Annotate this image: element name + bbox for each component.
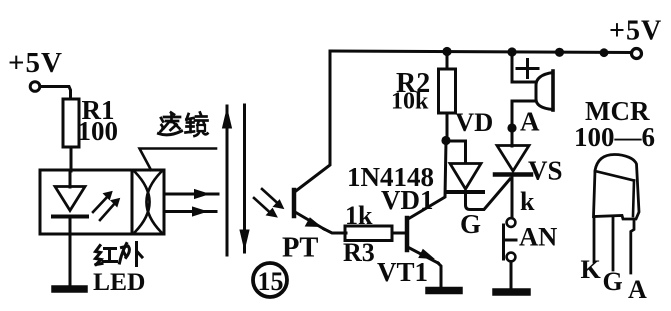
speaker wire bottom <box>512 101 536 146</box>
light path line down-arrow <box>243 105 246 252</box>
resistor R1 <box>63 99 79 147</box>
svg-text:1k: 1k <box>345 201 373 230</box>
resistor R3 <box>345 226 392 241</box>
package lead K <box>593 218 596 263</box>
svg-text:VT1: VT1 <box>377 257 428 287</box>
svg-text:10k: 10k <box>391 89 429 115</box>
VS cathode wire <box>511 176 514 218</box>
LED module box <box>40 170 164 234</box>
svg-text:R3: R3 <box>343 238 375 267</box>
incident light arrow 1 <box>262 189 278 204</box>
pushbutton AN <box>507 218 516 227</box>
thyristor VS triangle <box>497 146 529 172</box>
wire R1 to LED box <box>70 147 73 171</box>
VD cathode bar <box>448 190 483 194</box>
ground (under VT1) <box>429 287 459 295</box>
junction dot rail a <box>555 48 564 57</box>
terminal +5V right <box>632 49 642 59</box>
VS cathode bar <box>495 172 531 177</box>
svg-text:100—6: 100—6 <box>574 122 655 152</box>
figure number 15 circle <box>253 263 287 297</box>
lens output arrow 1 <box>165 193 218 196</box>
junction dot R2 bottom <box>441 136 450 145</box>
svg-text:G: G <box>460 209 481 239</box>
label 透镜 (drawn glyphs) <box>159 113 208 137</box>
svg-text:A: A <box>520 107 540 137</box>
svg-text:A: A <box>628 275 647 304</box>
wire into LED anode <box>69 171 72 187</box>
svg-text:k: k <box>520 187 535 216</box>
svg-text:100: 100 <box>78 116 119 146</box>
resistor R2 <box>446 51 449 69</box>
diode VD triangle <box>450 164 481 190</box>
MCR100-6 package TO-92 <box>594 155 640 220</box>
PT emitter wire with arrow <box>295 212 324 229</box>
junction dot anode A <box>507 123 516 132</box>
phototransistor PT base bar <box>292 190 297 216</box>
ground (under LED) <box>55 285 84 293</box>
wire VD to VS gate <box>466 179 511 210</box>
svg-text:VS: VS <box>528 156 563 186</box>
lens output arrow 2 <box>165 210 216 213</box>
junction dot rail b <box>600 48 609 57</box>
ground (under AN) <box>496 288 527 296</box>
wire LED cathode down <box>69 218 72 285</box>
svg-text:VD: VD <box>455 107 493 137</box>
terminal +5V left <box>30 82 40 92</box>
svg-text:+5V: +5V <box>609 16 662 47</box>
speaker HTD <box>551 71 555 110</box>
junction dot rail/R2 <box>442 47 451 56</box>
lens element curves <box>135 172 150 232</box>
label 透镜 leader line <box>140 149 217 171</box>
svg-text:PT: PT <box>282 233 318 264</box>
svg-text:+5V: +5V <box>8 47 63 79</box>
LED emission arrow 1 <box>93 195 109 212</box>
light path line up-arrow <box>226 106 229 255</box>
incident light arrow 2 <box>254 198 270 213</box>
label 红外 (drawn glyphs) <box>96 243 143 266</box>
LED cathode bar <box>53 215 87 219</box>
junction dot rail/speaker <box>507 47 516 56</box>
polarity + <box>517 67 538 70</box>
svg-text:LED: LED <box>93 267 145 296</box>
top +5V rail <box>330 51 631 53</box>
wire dot down to VT1 collector <box>408 141 446 219</box>
wire terminal to R1 <box>41 87 71 100</box>
transistor VT1 base bar <box>405 218 410 250</box>
speaker wire top <box>512 51 536 82</box>
svg-text:VD1: VD1 <box>381 185 434 215</box>
svg-text:15: 15 <box>258 267 284 296</box>
wire dot to VD <box>446 141 466 163</box>
VT1 base wire from R3 <box>392 232 405 235</box>
LED emission arrow 2 <box>100 202 116 220</box>
svg-text:G: G <box>603 267 623 296</box>
VT1 emitter wire with arrow <box>408 247 439 263</box>
lens cell divider <box>131 170 134 234</box>
svg-text:AN: AN <box>519 222 557 252</box>
package lead A <box>631 220 634 274</box>
LED diode triangle <box>55 187 85 211</box>
package lead G <box>612 218 615 271</box>
svg-text:K: K <box>581 255 602 284</box>
PT collector wire <box>295 51 331 192</box>
